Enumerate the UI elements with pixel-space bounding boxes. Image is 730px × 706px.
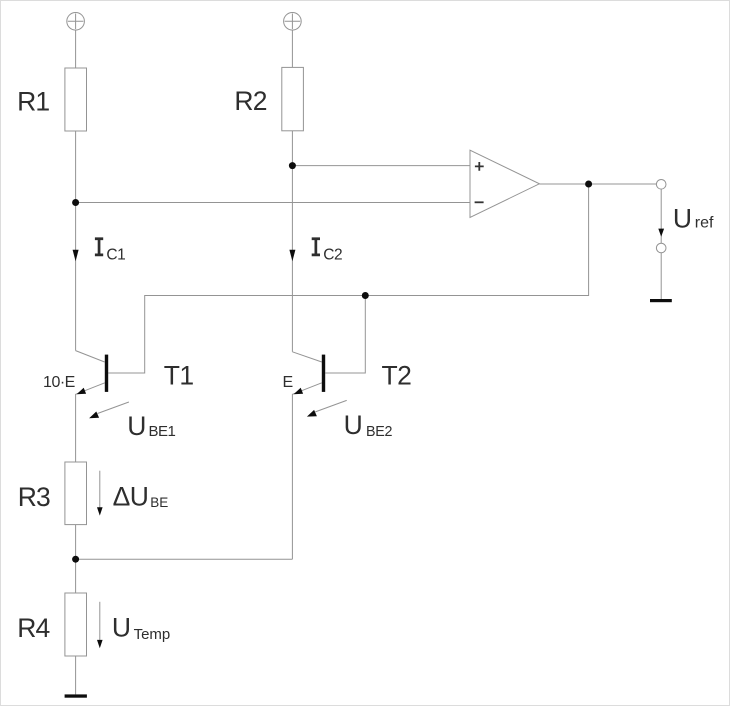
svg-text:E: E <box>282 374 293 391</box>
svg-text:U: U <box>127 411 146 441</box>
svg-text:U: U <box>344 410 363 440</box>
svg-text:C2: C2 <box>323 247 342 264</box>
svg-text:R2: R2 <box>234 86 266 116</box>
svg-text:ΔU: ΔU <box>113 481 149 511</box>
svg-text:ref: ref <box>695 215 714 232</box>
svg-text:U: U <box>112 613 131 643</box>
svg-text:R4: R4 <box>17 613 49 643</box>
svg-text:C1: C1 <box>106 247 125 264</box>
svg-text:U: U <box>673 203 692 233</box>
svg-text:R3: R3 <box>18 482 50 512</box>
svg-text:T1: T1 <box>164 360 194 390</box>
svg-text:10·E: 10·E <box>43 374 75 391</box>
svg-text:T2: T2 <box>382 360 412 390</box>
svg-text:BE: BE <box>150 495 168 510</box>
svg-text:R1: R1 <box>17 86 49 116</box>
svg-text:Temp: Temp <box>134 626 171 643</box>
svg-text:BE2: BE2 <box>366 424 392 440</box>
svg-text:BE1: BE1 <box>149 423 176 440</box>
